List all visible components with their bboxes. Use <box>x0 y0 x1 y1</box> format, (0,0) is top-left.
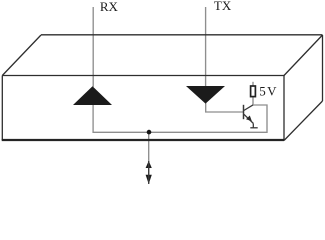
svg-text:TX: TX <box>214 0 232 13</box>
svg-text:RX: RX <box>100 0 119 14</box>
svg-text:5: 5 <box>259 84 266 99</box>
svg-text:V: V <box>267 84 277 99</box>
